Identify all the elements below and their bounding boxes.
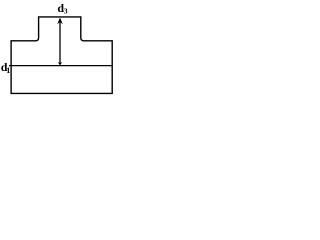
mid line (d1 level): [9, 65, 112, 67]
svg-text:1: 1: [6, 66, 10, 75]
T-shaped cross-section outline: [11, 17, 112, 94]
arrowhead up: [57, 18, 63, 25]
arrow shaft d3: [59, 20, 61, 64]
arrowhead down: [58, 62, 62, 65]
svg-text:3: 3: [64, 7, 68, 16]
